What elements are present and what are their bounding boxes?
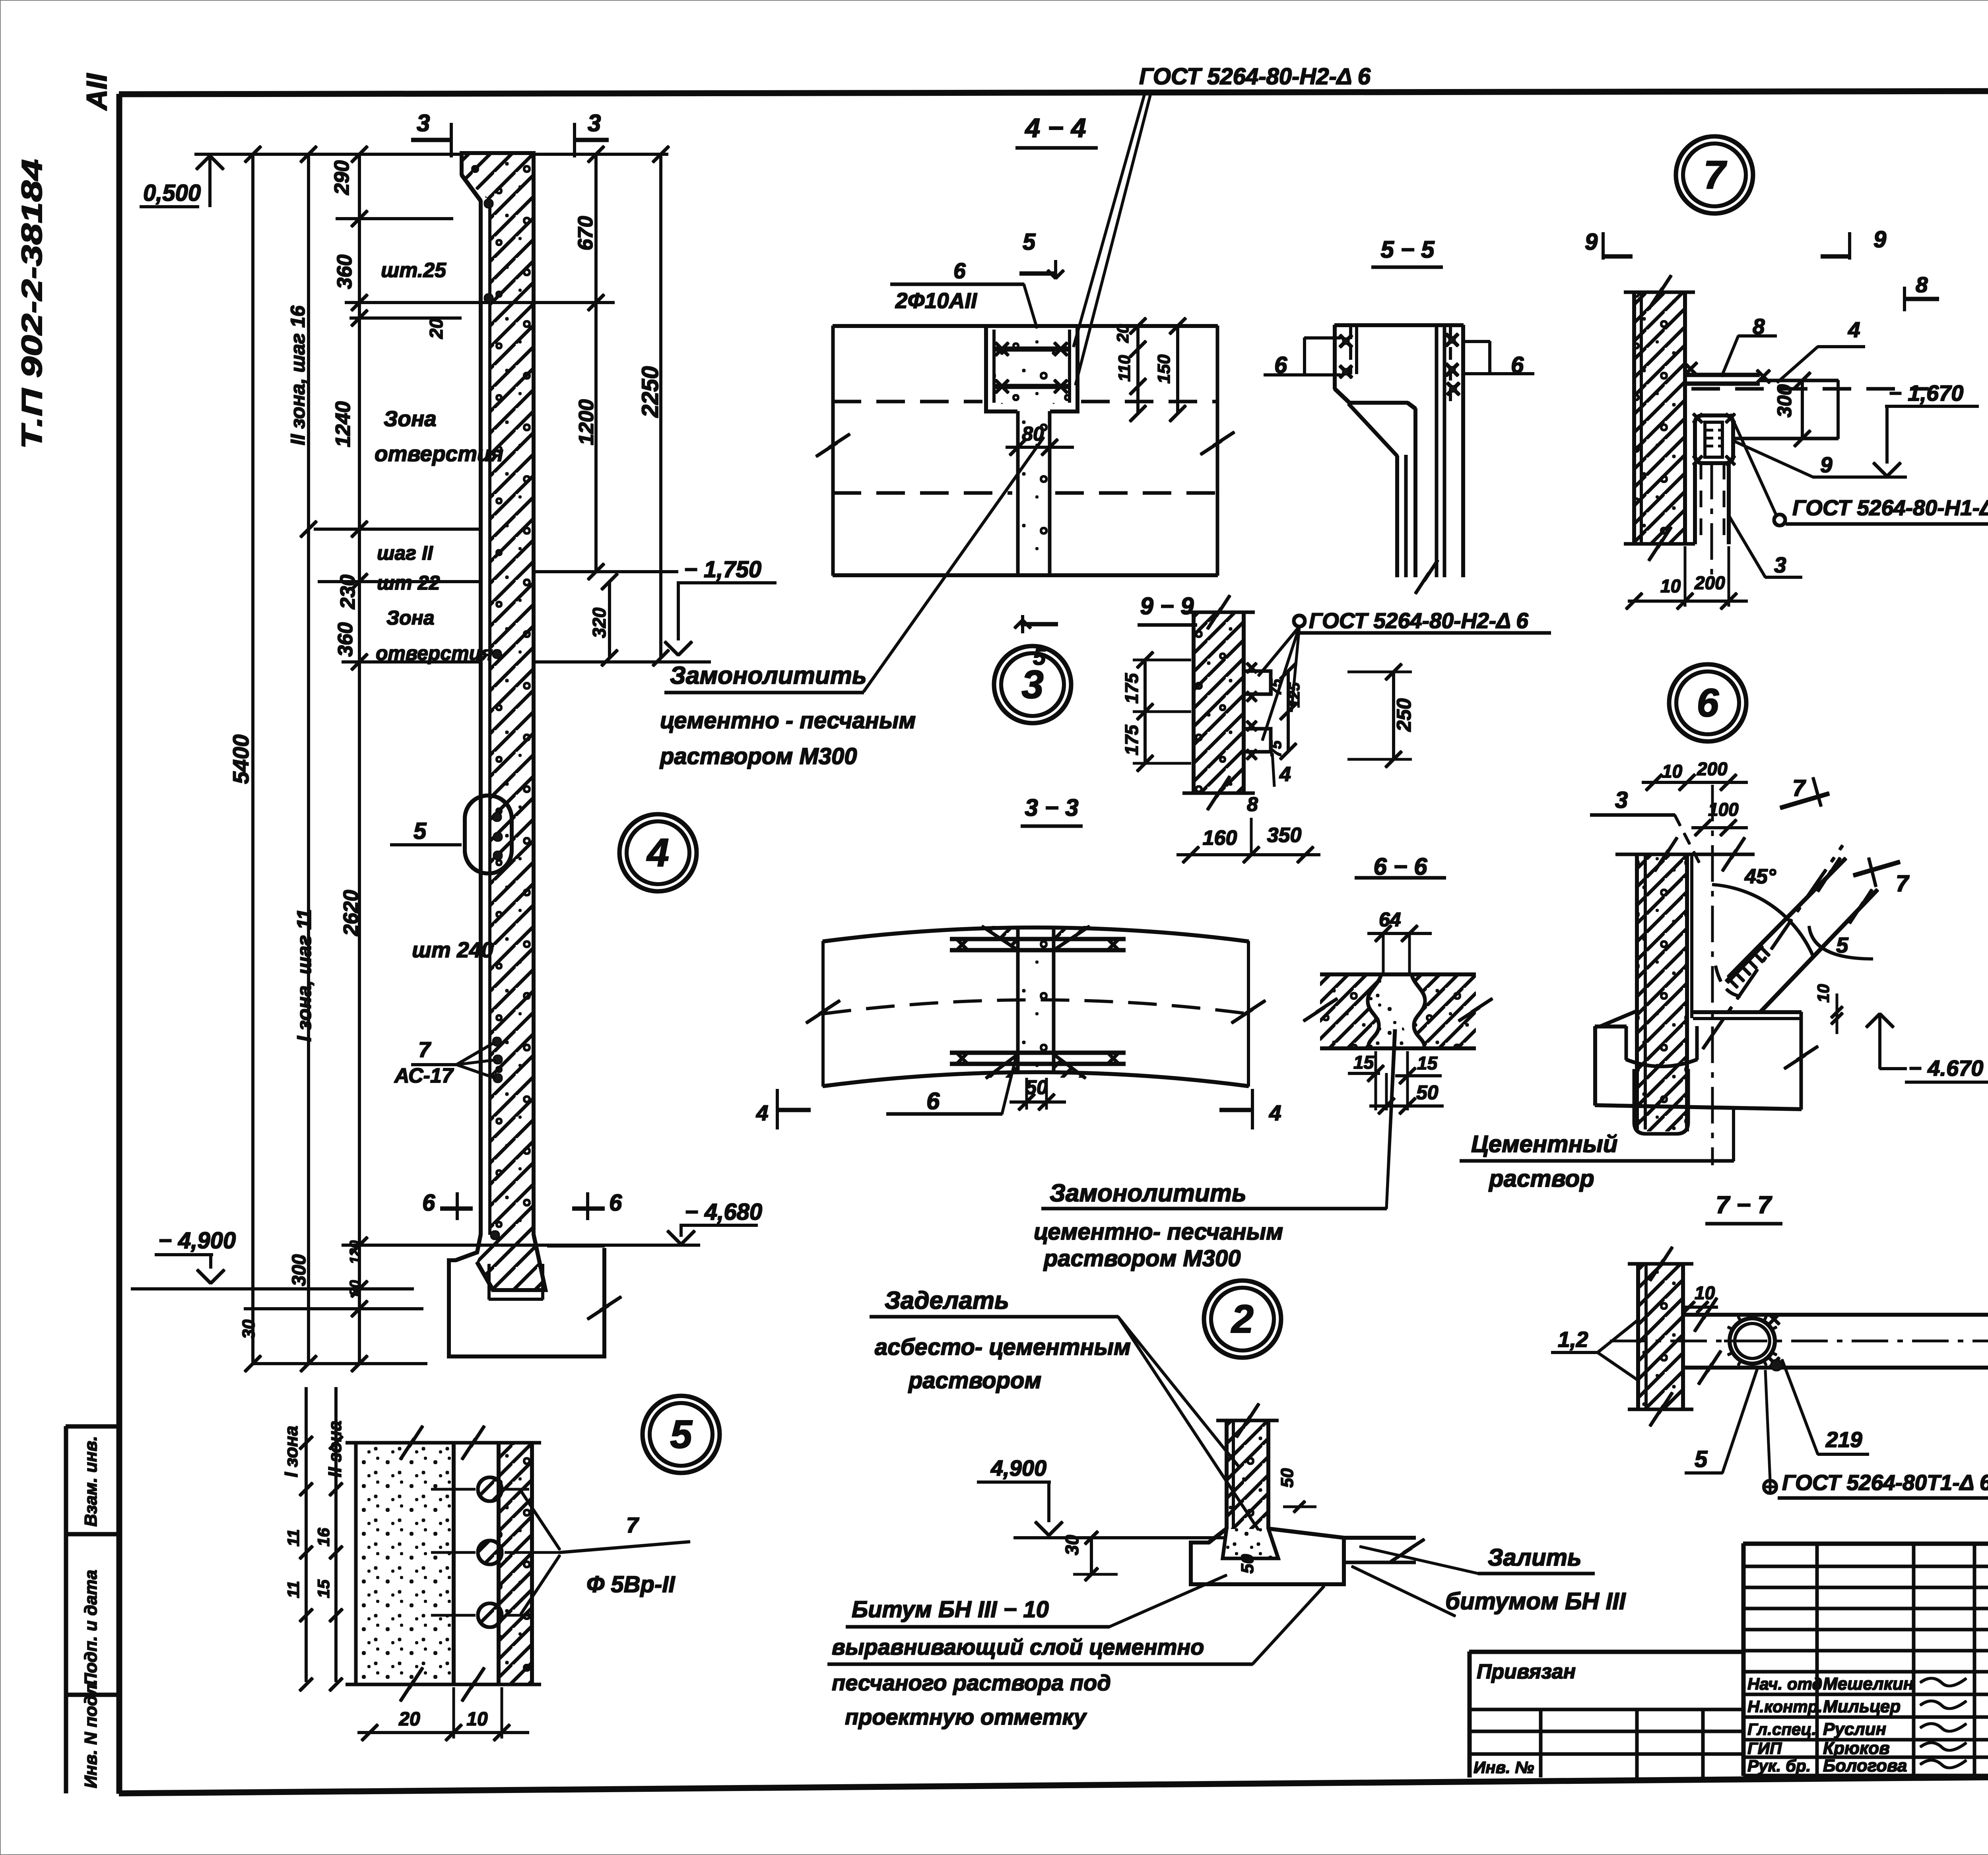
svg-text:− 4,680: − 4,680 bbox=[685, 1199, 762, 1225]
svg-text:7: 7 bbox=[626, 1513, 639, 1537]
svg-text:Гл.спец.: Гл.спец. bbox=[1747, 1720, 1816, 1739]
svg-text:290: 290 bbox=[330, 160, 353, 195]
svg-text:Мешелкин: Мешелкин bbox=[1823, 1674, 1914, 1694]
svg-text:2: 2 bbox=[1231, 1297, 1254, 1341]
svg-text:7: 7 bbox=[1896, 871, 1910, 896]
svg-text:песчаного раствора под: песчаного раствора под bbox=[832, 1670, 1111, 1695]
svg-text:15: 15 bbox=[1353, 1052, 1375, 1073]
svg-text:Зона: Зона bbox=[384, 406, 437, 431]
svg-text:9 − 9: 9 − 9 bbox=[1140, 593, 1194, 619]
svg-text:Бологова: Бологова bbox=[1823, 1756, 1907, 1775]
svg-text:Нач. отд: Нач. отд bbox=[1747, 1675, 1822, 1693]
svg-text:3 − 3: 3 − 3 bbox=[1025, 794, 1078, 821]
svg-text:10: 10 bbox=[466, 1709, 488, 1730]
svg-text:II зона, шаг 16: II зона, шаг 16 bbox=[287, 305, 309, 445]
svg-text:6: 6 bbox=[1697, 681, 1719, 725]
svg-text:битумом БН III: битумом БН III bbox=[1445, 1588, 1626, 1614]
svg-text:5: 5 bbox=[414, 818, 427, 844]
svg-text:11: 11 bbox=[284, 1581, 303, 1598]
svg-text:200: 200 bbox=[1694, 572, 1725, 593]
svg-text:Н.контр.: Н.контр. bbox=[1747, 1697, 1823, 1716]
svg-text:75: 75 bbox=[1268, 740, 1285, 757]
svg-text:2Ф10АII: 2Ф10АII bbox=[895, 288, 978, 313]
svg-text:Инв. N подл.: Инв. N подл. bbox=[81, 1679, 101, 1788]
svg-text:отверстия: отверстия bbox=[376, 642, 493, 664]
svg-text:Взам. инв.: Взам. инв. bbox=[81, 1436, 101, 1527]
svg-text:3: 3 bbox=[1021, 662, 1044, 707]
svg-text:Рук. бр.: Рук. бр. bbox=[1747, 1756, 1811, 1775]
svg-text:Замонолитить: Замонолитить bbox=[1050, 1180, 1246, 1207]
svg-text:300: 300 bbox=[1773, 384, 1796, 417]
svg-text:30: 30 bbox=[239, 1319, 258, 1339]
svg-text:7 − 7: 7 − 7 bbox=[1716, 1191, 1772, 1219]
svg-text:асбесто- цементным: асбесто- цементным bbox=[875, 1334, 1131, 1360]
svg-text:320: 320 bbox=[589, 607, 610, 638]
svg-text:175: 175 bbox=[1121, 673, 1142, 704]
svg-text:1,2: 1,2 bbox=[1558, 1327, 1588, 1352]
svg-text:4: 4 bbox=[1269, 1100, 1281, 1125]
svg-text:0,500: 0,500 bbox=[143, 180, 201, 206]
svg-text:360: 360 bbox=[334, 622, 357, 657]
svg-text:ГОСТ 5264-80Т1-Δ 6: ГОСТ 5264-80Т1-Δ 6 bbox=[1782, 1470, 1988, 1495]
svg-text:6 − 6: 6 − 6 bbox=[1373, 853, 1427, 880]
svg-text:7: 7 bbox=[418, 1037, 431, 1062]
svg-text:11: 11 bbox=[284, 1529, 303, 1546]
svg-text:1200: 1200 bbox=[575, 399, 598, 445]
svg-text:80: 80 bbox=[347, 1280, 363, 1296]
svg-text:2250: 2250 bbox=[637, 366, 663, 418]
svg-text:10: 10 bbox=[1662, 761, 1683, 782]
svg-text:Замонолитить: Замонолитить bbox=[670, 662, 867, 689]
svg-text:8: 8 bbox=[1247, 793, 1258, 815]
svg-text:10: 10 bbox=[1814, 984, 1833, 1003]
svg-text:3: 3 bbox=[1774, 553, 1786, 577]
svg-text:4,900: 4,900 bbox=[990, 1455, 1046, 1481]
svg-text:50: 50 bbox=[1277, 1468, 1297, 1488]
svg-text:3: 3 bbox=[417, 110, 430, 136]
svg-text:50: 50 bbox=[1238, 1554, 1257, 1574]
svg-text:раствором М300: раствором М300 bbox=[1043, 1246, 1241, 1271]
svg-text:отверстия: отверстия bbox=[375, 441, 503, 466]
svg-text:Залить: Залить bbox=[1488, 1544, 1582, 1571]
svg-text:5: 5 bbox=[1836, 933, 1849, 957]
svg-text:200: 200 bbox=[1697, 759, 1728, 779]
svg-text:20: 20 bbox=[426, 318, 447, 339]
svg-text:ГИП: ГИП bbox=[1747, 1739, 1782, 1758]
svg-text:− 1,750: − 1,750 bbox=[684, 557, 761, 582]
svg-text:шт 240: шт 240 bbox=[412, 937, 493, 962]
svg-text:Заделать: Заделать bbox=[885, 1287, 1009, 1314]
svg-text:160: 160 bbox=[1203, 827, 1237, 850]
svg-text:20: 20 bbox=[1113, 324, 1132, 343]
svg-text:− 4.670: − 4.670 bbox=[1908, 1056, 1983, 1081]
svg-text:175: 175 bbox=[1121, 724, 1142, 755]
svg-text:шт 22: шт 22 bbox=[377, 572, 440, 594]
svg-text:5: 5 bbox=[1023, 229, 1036, 255]
svg-text:I зона, шаг 11: I зона, шаг 11 bbox=[293, 909, 315, 1042]
svg-text:16: 16 bbox=[314, 1528, 333, 1546]
svg-text:− 1,670: − 1,670 bbox=[1889, 380, 1963, 406]
svg-text:6: 6 bbox=[953, 258, 966, 283]
svg-text:670: 670 bbox=[574, 216, 597, 250]
svg-text:30: 30 bbox=[1062, 1535, 1082, 1555]
svg-text:50: 50 bbox=[1416, 1081, 1439, 1104]
svg-text:150: 150 bbox=[1154, 354, 1174, 384]
svg-text:раствор: раствор bbox=[1488, 1165, 1594, 1192]
svg-text:15: 15 bbox=[314, 1579, 333, 1598]
svg-text:6: 6 bbox=[926, 1088, 940, 1114]
svg-text:Ф 5Вр-II: Ф 5Вр-II bbox=[586, 1572, 676, 1597]
svg-text:4 − 4: 4 − 4 bbox=[1024, 113, 1086, 143]
svg-text:20: 20 bbox=[398, 1709, 420, 1730]
svg-text:I зона: I зона bbox=[281, 1426, 301, 1477]
svg-text:120: 120 bbox=[347, 1240, 363, 1264]
svg-text:4: 4 bbox=[1279, 763, 1291, 786]
svg-text:230: 230 bbox=[336, 574, 359, 609]
svg-text:Привязан: Привязан bbox=[1477, 1660, 1576, 1683]
svg-text:II зона: II зона bbox=[324, 1420, 345, 1477]
svg-text:4: 4 bbox=[1848, 317, 1860, 342]
svg-text:5400: 5400 bbox=[228, 734, 253, 784]
svg-text:Мильцер: Мильцер bbox=[1823, 1697, 1901, 1716]
svg-text:выравнивающий слой цементно: выравнивающий слой цементно bbox=[832, 1634, 1204, 1659]
svg-text:раствором: раствором bbox=[908, 1368, 1041, 1393]
svg-text:4: 4 bbox=[646, 830, 669, 875]
svg-text:раствором М300: раствором М300 bbox=[659, 743, 857, 769]
svg-text:Битум БН III − 10: Битум БН III − 10 bbox=[852, 1597, 1049, 1622]
svg-text:− 4,900: − 4,900 bbox=[158, 1228, 236, 1253]
svg-text:6: 6 bbox=[422, 1190, 435, 1216]
svg-text:6: 6 bbox=[609, 1190, 622, 1216]
svg-text:350: 350 bbox=[1267, 824, 1302, 847]
svg-text:Цементный: Цементный bbox=[1471, 1131, 1618, 1157]
svg-text:Зона: Зона bbox=[386, 607, 435, 629]
svg-text:АС-17: АС-17 bbox=[394, 1064, 454, 1087]
svg-text:Крюков: Крюков bbox=[1823, 1739, 1890, 1758]
svg-text:Инв. №: Инв. № bbox=[1474, 1758, 1534, 1777]
svg-text:ГОСТ 5264-80-Н2-Δ 6: ГОСТ 5264-80-Н2-Δ 6 bbox=[1309, 608, 1528, 633]
svg-text:шаг II: шаг II bbox=[377, 542, 433, 564]
svg-text:5: 5 bbox=[1695, 1446, 1708, 1472]
svg-text:10: 10 bbox=[1695, 1283, 1715, 1303]
svg-text:300: 300 bbox=[289, 1254, 310, 1286]
svg-text:219: 219 bbox=[1825, 1427, 1862, 1452]
svg-text:9: 9 bbox=[1873, 227, 1886, 252]
svg-text:1240: 1240 bbox=[332, 401, 355, 447]
svg-text:Руслин: Руслин bbox=[1823, 1719, 1886, 1739]
svg-text:45°: 45° bbox=[1744, 865, 1776, 888]
svg-text:7: 7 bbox=[1703, 153, 1727, 197]
svg-text:цементно - песчаным: цементно - песчаным bbox=[660, 708, 916, 733]
svg-text:5: 5 bbox=[670, 1412, 693, 1457]
svg-text:15: 15 bbox=[1417, 1053, 1438, 1073]
svg-text:АII: АII bbox=[81, 73, 113, 111]
svg-text:ГОСТ 5264-80-Н2-Δ 6: ГОСТ 5264-80-Н2-Δ 6 bbox=[1139, 64, 1371, 89]
svg-text:5 − 5: 5 − 5 bbox=[1380, 236, 1435, 263]
svg-text:3: 3 bbox=[1615, 787, 1628, 813]
svg-text:7: 7 bbox=[1792, 775, 1806, 801]
svg-text:110: 110 bbox=[1115, 355, 1134, 382]
svg-text:9: 9 bbox=[1820, 452, 1833, 477]
svg-text:9: 9 bbox=[1585, 229, 1598, 255]
svg-text:шт.25: шт.25 bbox=[381, 259, 447, 282]
svg-text:8: 8 bbox=[1916, 272, 1928, 297]
svg-text:проектную отметку: проектную отметку bbox=[845, 1704, 1087, 1729]
svg-text:10: 10 bbox=[1660, 576, 1681, 596]
svg-text:2620: 2620 bbox=[340, 890, 363, 936]
svg-text:360: 360 bbox=[333, 254, 356, 289]
svg-text:ГОСТ 5264-80-Н1-Δ 6: ГОСТ 5264-80-Н1-Δ 6 bbox=[1792, 495, 1988, 520]
svg-text:Т.П 902-2-38184: Т.П 902-2-38184 bbox=[16, 159, 48, 449]
svg-text:3: 3 bbox=[588, 110, 601, 136]
svg-text:Подп. и дата: Подп. и дата bbox=[81, 1570, 101, 1686]
svg-text:4: 4 bbox=[756, 1100, 769, 1125]
svg-text:250: 250 bbox=[1393, 698, 1415, 732]
svg-text:цементно- песчаным: цементно- песчаным bbox=[1034, 1219, 1283, 1245]
svg-text:50: 50 bbox=[1025, 1076, 1048, 1098]
